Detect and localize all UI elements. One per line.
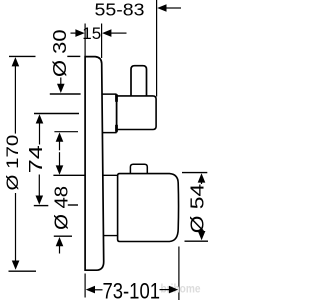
- lower handle neck sleeve: [103, 175, 118, 235]
- upper handle stem knob: [131, 66, 147, 96]
- tick plate top right segment: [67, 55, 80, 57]
- dimension Ø48 shared tail line: [59, 152, 61, 166]
- upper handle grip: [117, 96, 157, 130]
- upper handle sleeve (rear section): [102, 94, 116, 133]
- svg-text:Ø 30: Ø 30: [49, 30, 70, 78]
- tick lower neck bottom (Ø48 bottom ref): [54, 235, 72, 237]
- dimension Ø30 label: [49, 30, 70, 78]
- dimension 15 left arrow: [71, 32, 78, 34]
- dimension Ø54 top arrow: [198, 173, 206, 182]
- svg-text:Ø 54: Ø 54: [187, 184, 207, 234]
- tick upper handle bottom (Ø30 bottom ref): [54, 131, 78, 133]
- dimension Ø48 label: [50, 186, 71, 230]
- tick lower handle top right (Ø54 top ref): [182, 172, 207, 174]
- svg-text:Ø 170: Ø 170: [4, 135, 22, 191]
- tick upper handle axis (74 top ref): [34, 113, 79, 115]
- dimension 74 top arrow: [36, 114, 44, 123]
- svg-text:Ø 48: Ø 48: [50, 186, 71, 230]
- tick plate bottom (Ø170 bottom ref): [9, 270, 37, 272]
- tick lower handle axis right segment: [68, 204, 78, 206]
- escutcheon plate (side profile): [85, 57, 104, 271]
- dimension 55-83 arrow: [157, 4, 166, 12]
- svg-text:73-101: 73-101: [103, 279, 161, 300]
- dimension Ø30 bottom arrow (tail below, pointing up): [56, 132, 64, 141]
- tick upper handle top (Ø30 top ref): [50, 93, 81, 95]
- dimension Ø54 label: [187, 184, 207, 234]
- dimension 74 bottom arrow: [38, 175, 40, 197]
- upper handle joint line: [116, 94, 118, 133]
- dimension Ø54 bottom arrow: [201, 230, 203, 233]
- lower handle top tab: [130, 164, 147, 173]
- dimension Ø170 top arrow: [12, 57, 20, 66]
- dimension Ø170 label: [4, 135, 22, 191]
- dimension Ø48 top arrow (pointing down at neck top): [56, 165, 64, 174]
- svg-text:15: 15: [82, 24, 101, 43]
- tick lower neck top (Ø48 top ref): [53, 174, 85, 176]
- extension line wall plane upper (15 / 55-83 left ref): [84, 24, 86, 57]
- dimension 74 label: [26, 145, 46, 173]
- dimension Ø170 bottom arrow: [15, 193, 17, 262]
- dimension 73-101 right arrow: [160, 289, 171, 291]
- dimension 73-101 left arrow: [86, 286, 95, 294]
- tick lower handle bottom right (Ø54 bottom ref): [185, 240, 209, 242]
- tick lower handle axis left (74 bottom ref): [34, 205, 49, 207]
- svg-text:brihome: brihome: [161, 282, 201, 296]
- lower handle body: [118, 174, 179, 242]
- extension line wall plane lower (73-101 left ref): [84, 274, 86, 298]
- dimension Ø48 bottom arrow (tail below, pointing up): [56, 237, 64, 246]
- extension line lower handle front (73-101 right ref): [178, 247, 180, 300]
- extension line plate front (15 right ref): [101, 24, 103, 59]
- svg-text:74: 74: [26, 145, 46, 173]
- svg-text:55-83: 55-83: [95, 0, 145, 20]
- dimension Ø30 top arrow (tail above, pointing down): [60, 78, 62, 85]
- tick plate top left (Ø170 top ref): [9, 55, 36, 57]
- dimension 15 right arrow: [102, 29, 111, 37]
- extension line handle front (55-83 right ref): [156, 0, 158, 97]
